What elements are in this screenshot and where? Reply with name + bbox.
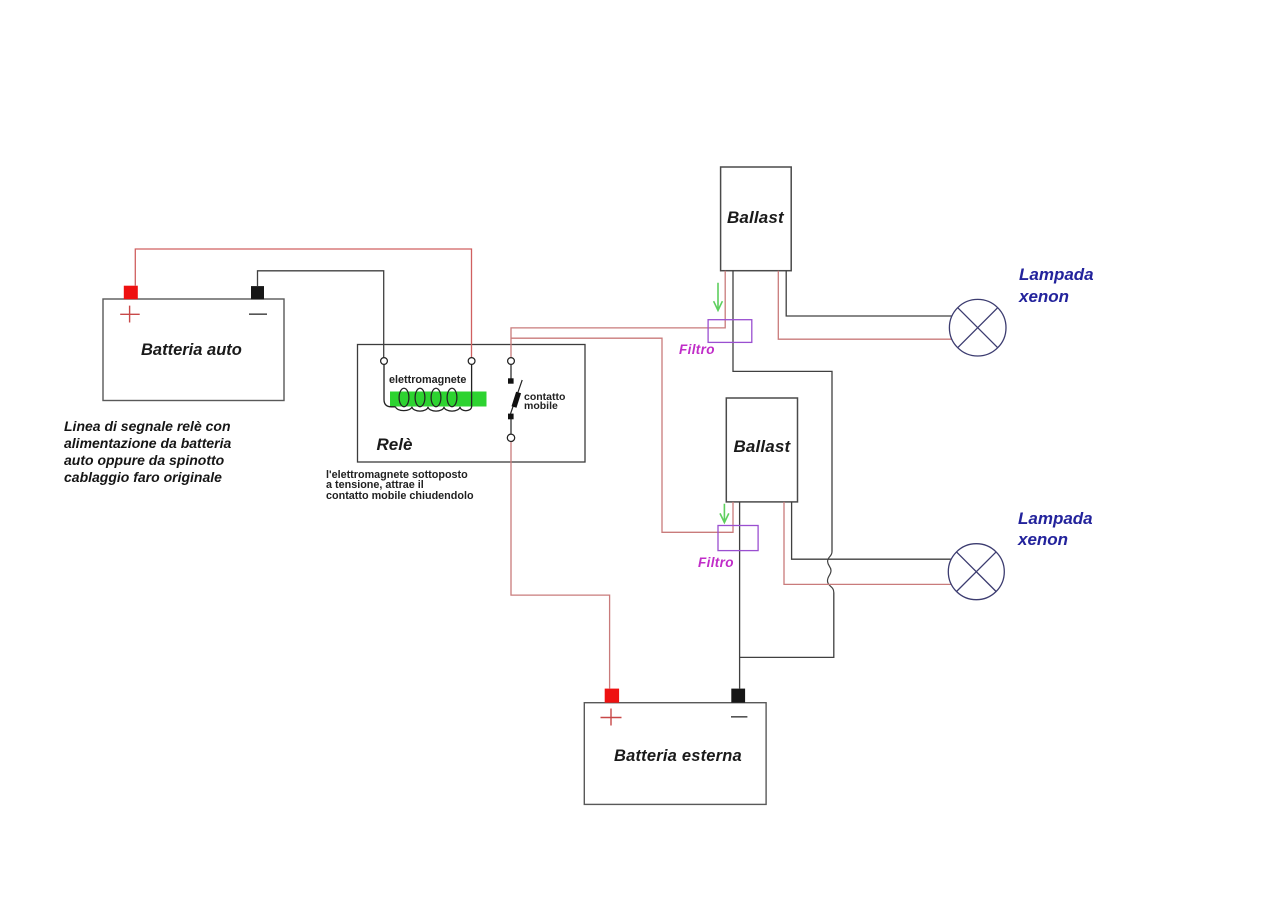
battery auto minus sign <box>249 313 267 315</box>
battery auto plus sign <box>120 306 140 323</box>
label: Relè <box>377 437 413 454</box>
relay switch fixed contact lead <box>510 365 512 379</box>
wire: battery auto red to relay coil <box>135 249 471 357</box>
battery esterna red terminal <box>605 689 619 703</box>
wire: ballast1 right red to lamp1 <box>778 271 952 340</box>
wire: ballast2 right black to lamp2 <box>792 502 951 559</box>
wire: junction up through filtro2 to ballast2, and down to battery esterna black <box>739 502 741 689</box>
relay switch lower square <box>508 414 514 420</box>
lamp 1 <box>949 299 1006 356</box>
battery esterna black terminal <box>731 689 745 703</box>
filtro 2 rect <box>718 526 758 551</box>
relay terminal circles <box>381 358 388 365</box>
relay coil green core <box>390 392 487 407</box>
wire: ballast1 left black down and over <box>733 271 832 552</box>
wire: relay switch to filtro 1 / ballast 1 (red) <box>511 271 725 358</box>
label: Lampada xenon 2 <box>1018 508 1093 552</box>
note: l'elettromagnete sottoposto <box>326 470 474 501</box>
relay switch upper square <box>508 378 514 383</box>
relay coil right lead <box>471 365 473 408</box>
relay box <box>358 345 586 463</box>
relay switch lower lead <box>510 419 512 434</box>
label: elettromagnete <box>389 375 466 385</box>
filtro 1 rect <box>708 320 752 343</box>
wire: branch to filtro 2 / ballast 2 (red) <box>511 338 733 532</box>
label: Filtro 1 <box>679 343 715 357</box>
battery esterna minus sign <box>731 716 747 718</box>
relay coil left lead <box>384 365 396 407</box>
relay coil bottom arcs <box>396 407 472 411</box>
wire: relay switch to battery esterna plus (red) <box>511 441 610 688</box>
lamp 2 <box>948 544 1004 600</box>
wire continues down to junction <box>740 593 834 658</box>
wire: ballast2 right red to lamp2 <box>784 502 951 585</box>
wire: battery auto black to relay coil <box>258 271 384 358</box>
ballast 1 box <box>721 167 792 271</box>
label: contatto mobile <box>524 393 565 412</box>
battery esterna plus sign <box>601 709 622 726</box>
relay coil loops <box>399 388 409 406</box>
battery esterna box <box>584 703 766 805</box>
label: Ballast 2 <box>734 439 791 456</box>
green arrow 1 <box>714 283 723 311</box>
wire: ballast1 right black to lamp1 <box>786 271 952 316</box>
label: Lampada xenon 1 <box>1019 264 1094 308</box>
label: Ballast 1 <box>727 210 784 227</box>
label: Filtro 2 <box>698 556 734 570</box>
battery auto black terminal <box>251 286 264 299</box>
relay switch blade <box>511 380 523 414</box>
green arrow 2 <box>720 504 729 523</box>
battery auto red terminal <box>124 286 138 300</box>
wire squiggle crossing lamp2 wires <box>827 552 833 593</box>
battery auto box <box>103 299 284 401</box>
label: Batteria auto <box>141 342 242 359</box>
note: linea di segnale <box>64 418 231 486</box>
label: Batteria esterna <box>614 748 742 765</box>
ballast 2 box <box>726 398 797 502</box>
